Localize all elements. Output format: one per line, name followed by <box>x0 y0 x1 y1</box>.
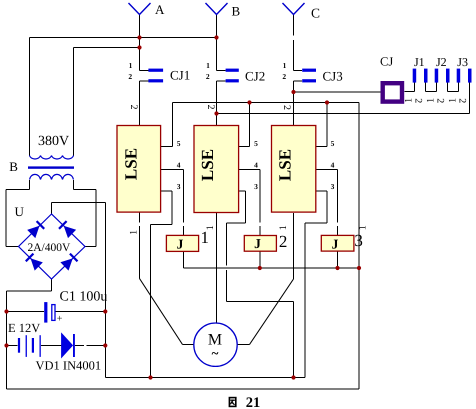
svg-text:4: 4 <box>254 160 258 169</box>
svg-text:2: 2 <box>128 72 132 81</box>
svg-text:2: 2 <box>282 72 286 81</box>
svg-text:J: J <box>254 236 261 251</box>
svg-text:380V: 380V <box>38 134 69 149</box>
svg-text:3: 3 <box>177 182 181 191</box>
svg-text:5: 5 <box>177 139 181 148</box>
svg-text:CJ1: CJ1 <box>170 68 190 83</box>
svg-text:+: + <box>57 314 63 325</box>
svg-text:A: A <box>155 2 165 17</box>
svg-text:1: 1 <box>129 230 140 235</box>
svg-text:3: 3 <box>331 182 335 191</box>
svg-text:J2: J2 <box>436 55 447 69</box>
svg-text:5: 5 <box>331 139 335 148</box>
svg-text:5: 5 <box>254 139 258 148</box>
svg-text:LSE: LSE <box>198 149 217 181</box>
svg-text:LSE: LSE <box>122 148 141 180</box>
svg-text:21: 21 <box>246 395 261 409</box>
svg-text:E 12V: E 12V <box>8 321 40 335</box>
svg-text:2: 2 <box>279 232 288 251</box>
svg-text:3: 3 <box>354 231 363 250</box>
svg-text:C: C <box>311 6 320 21</box>
svg-text:U: U <box>15 204 25 219</box>
svg-text:1: 1 <box>278 225 289 230</box>
svg-text:4: 4 <box>331 160 335 169</box>
svg-text:VD1 IN4001: VD1 IN4001 <box>36 359 102 373</box>
svg-text:1: 1 <box>129 61 133 70</box>
svg-text:2: 2 <box>128 105 139 110</box>
svg-text:C1 100u: C1 100u <box>60 290 108 305</box>
svg-text:2: 2 <box>413 98 424 103</box>
svg-text:CJ3: CJ3 <box>323 69 343 84</box>
svg-text:J: J <box>332 236 339 251</box>
svg-text:B: B <box>232 4 241 19</box>
svg-text:J1: J1 <box>414 55 425 69</box>
svg-text:J: J <box>177 237 184 252</box>
svg-text:~: ~ <box>212 346 219 361</box>
svg-text:3: 3 <box>254 182 258 191</box>
svg-text:B: B <box>9 159 18 174</box>
svg-text:CJ: CJ <box>380 55 393 69</box>
svg-text:2: 2 <box>205 105 216 110</box>
svg-text:1: 1 <box>206 61 210 70</box>
svg-text:2: 2 <box>206 72 210 81</box>
svg-text:1: 1 <box>358 225 369 230</box>
svg-text:1: 1 <box>205 225 216 230</box>
svg-text:CJ2: CJ2 <box>245 69 265 84</box>
svg-text:LSE: LSE <box>276 149 295 181</box>
svg-text:J3: J3 <box>457 55 468 69</box>
svg-text:2A/400V: 2A/400V <box>28 242 72 254</box>
svg-text:2: 2 <box>281 105 292 110</box>
svg-text:4: 4 <box>177 160 181 169</box>
svg-text:2: 2 <box>457 98 468 103</box>
svg-text:1: 1 <box>283 61 287 70</box>
svg-text:2: 2 <box>435 98 446 103</box>
